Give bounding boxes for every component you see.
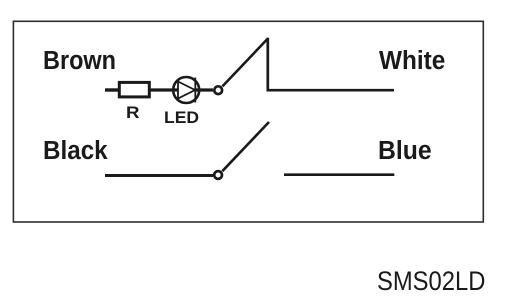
wire brown lead	[105, 88, 120, 91]
node Brown	[43, 49, 116, 75]
wire black lead	[105, 174, 213, 177]
label LED	[164, 109, 199, 126]
switch contact top	[214, 86, 222, 94]
resistor R	[119, 82, 149, 97]
label R	[126, 104, 140, 121]
switch contact bottom	[214, 171, 222, 179]
switch arm top	[222, 38, 268, 86]
node Black	[43, 139, 108, 165]
LED anode triangle	[178, 82, 195, 99]
LED cathode bar	[194, 78, 196, 103]
wire vertical drop	[268, 38, 394, 90]
wire LED to contact	[195, 88, 213, 91]
node Blue	[378, 139, 432, 165]
wire resistor to LED	[150, 88, 179, 91]
label SMS02LD	[377, 268, 485, 295]
switch arm bottom	[222, 122, 269, 171]
wire blue lead	[284, 173, 394, 176]
node White	[379, 49, 445, 75]
LED U1 circle	[173, 77, 199, 103]
